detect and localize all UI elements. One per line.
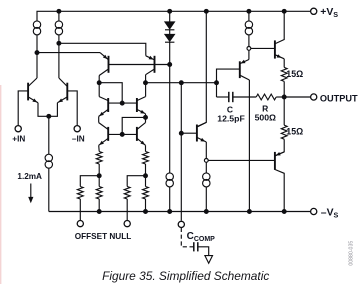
wire CCOMP dashed lead: [181, 228, 193, 247]
terminal OUTPUT: [311, 94, 317, 100]
svg-text:12.5pF: 12.5pF: [217, 113, 245, 123]
node rail-Q11 collector: [282, 210, 286, 214]
wire Q12 collector to +VS: [275, 11, 284, 43]
wire Q7/Q8 base rail: [108, 133, 137, 135]
wire output node to OUTPUT terminal: [284, 96, 310, 98]
wire Q5/Q6 base rail: [108, 102, 137, 104]
wire node J to Q12 base: [251, 47, 275, 49]
wire I2 to Q2 collector: [58, 35, 60, 78]
node Q: offset network right node: [144, 174, 148, 178]
wire node J to Q10 emitter: [248, 50, 250, 59]
wire R2 to node Q: [145, 164, 147, 187]
transistor Q1 (input NPN, +IN side): [18, 78, 38, 126]
node rail-I4: [247, 9, 251, 13]
current source I3 (1.2mA tail): [45, 154, 52, 168]
wire node B to Q4 emitter corner: [59, 43, 146, 56]
terminal -IN: [74, 126, 80, 132]
terminal CCOMP: [178, 221, 184, 227]
wire second-stage bus (node D horizontal): [146, 82, 217, 84]
wire C1 to R5: [233, 96, 256, 98]
wire I1 to Q1 collector: [36, 35, 38, 78]
svg-text:–IN: –IN: [72, 135, 85, 144]
terminal +IN: [15, 126, 21, 132]
svg-text:OFFSET NULL: OFFSET NULL: [75, 232, 131, 241]
wire CCOMP column (node D down to CCOMP terminal): [180, 83, 182, 221]
svg-text:+IN: +IN: [12, 135, 25, 144]
current source I4 (Q10 emitter bias): [245, 21, 252, 35]
arrow 1.2mA current direction: [28, 184, 33, 204]
wire Q6 emitter to node M: [145, 114, 147, 118]
transistor Q2 (input NPN, -IN side): [57, 78, 77, 126]
node D-left: Q3 collector / Q5 collector / bias branch: [97, 81, 101, 85]
wire I2 top feed: [58, 11, 60, 21]
node rail-I5: [168, 210, 172, 214]
transistor Q5 (second stage NPN, left upper): [99, 97, 109, 117]
node M: Q6 emitter / Q8 collector junction: [144, 116, 148, 120]
node L: base rail junction: [120, 101, 124, 105]
svg-text:1.2mA: 1.2mA: [17, 172, 42, 181]
resistor R2B (right node to -VS): [143, 187, 149, 200]
wire node G to current source I6: [205, 162, 207, 173]
current source I1 (left input collector load): [33, 21, 40, 35]
wire R2A to OFFSET NULL terminal (crosses rail): [126, 199, 128, 221]
node rail-R1B: [97, 210, 101, 214]
wire C2 to external ground arrow: [198, 247, 209, 256]
wire R5 to output node: [276, 96, 284, 98]
wire +VS top supply rail: [37, 11, 311, 21]
wire D2 to bias node and current source I5: [169, 42, 171, 173]
node C: Q3/Q4 base bias node on diode column: [168, 63, 172, 67]
capacitor C2 CCOMP left plate: [193, 242, 195, 251]
node rail-R2B: [144, 210, 148, 214]
transistor Q3 (PNP, driven from node A): [99, 53, 108, 76]
node rail-Q9 collector: [204, 9, 208, 13]
wire Q3/Q4 base line to node C: [109, 64, 170, 66]
wire node P to offset-null branch: [80, 176, 99, 187]
resistor R1A (offset null branch): [77, 187, 83, 200]
node K: tail junction: [47, 114, 51, 118]
svg-text:Figure 35. Simplified Schemati: Figure 35. Simplified Schematic: [102, 269, 269, 283]
wire R1A to OFFSET NULL terminal (crosses rail): [79, 199, 81, 221]
node N: lower base rail junction: [120, 133, 124, 137]
scan artifact line (left page edge): [0, 85, 2, 284]
terminal +VS: [311, 8, 317, 14]
wire I5 to -VS rail: [169, 187, 171, 212]
svg-text:15Ω: 15Ω: [286, 127, 303, 137]
wire Q5 emitter to Q7 collector: [98, 116, 100, 122]
node G: emitter tap circle of Q9: [204, 159, 208, 163]
transistor Q8 (second stage NPN, right lower): [137, 123, 146, 146]
node rail-Q12 collector: [282, 9, 286, 13]
node rail-Q10 collector: [248, 210, 252, 214]
ground arrow (external connection): [205, 256, 213, 264]
wire Q8 emitter to R2: [145, 145, 147, 151]
wire R1 to node P: [98, 164, 100, 187]
current source I2 (right input collector load): [55, 21, 62, 35]
wire node A to Q3 emitter: [37, 52, 100, 54]
transistor Q6 (second stage NPN, right upper): [137, 97, 146, 114]
diode D2: [165, 34, 174, 42]
svg-text:500Ω: 500Ω: [255, 112, 276, 122]
transistor Q10 (PNP emitter follower driver): [240, 60, 250, 81]
svg-text:CCOMP: CCOMP: [187, 231, 216, 243]
svg-text:15Ω: 15Ω: [286, 69, 303, 79]
wire output node to R4: [283, 97, 285, 125]
wire Q9 emitter tap column: [205, 142, 207, 159]
wire Q9 base: [181, 132, 196, 134]
capacitor C1 12.5pF left plate: [228, 92, 230, 102]
node D: Q4 collector on bus: [144, 81, 148, 85]
node rail-I2: [57, 9, 61, 13]
node H: bus to compensation column: [215, 81, 219, 85]
wire Q8 collector to node M column: [145, 117, 147, 122]
wire tail current source column: [48, 116, 50, 154]
svg-text:00880-035: 00880-035: [349, 241, 355, 266]
wire diode string top: [169, 11, 171, 22]
svg-text:–VS: –VS: [321, 208, 339, 220]
wire R1B to rail: [98, 199, 100, 212]
wire Q12 emitter to R3: [283, 59, 285, 68]
wire Q1/Q2 emitters to tail node: [38, 103, 57, 117]
wire I6 to -VS rail: [205, 187, 207, 212]
terminal OFFSET NULL left: [77, 221, 83, 227]
node output junction: [282, 95, 286, 99]
wire I4 to node J: [248, 35, 250, 47]
node J: emitter tap circle of Q10: [247, 47, 251, 51]
capacitor C2 CCOMP right plate: [197, 242, 199, 251]
node A: junction I1/Q1 collector to Q3 emitter: [35, 51, 39, 55]
current source I6 (Q9 emitter bias): [203, 173, 210, 187]
terminal OFFSET NULL right: [124, 221, 130, 227]
wire node G to Q11 base: [208, 159, 274, 161]
diode D1: [165, 22, 174, 30]
wire compensation node column C to Q10 base: [217, 69, 240, 97]
terminal -VS: [311, 208, 317, 214]
node E: CCOMP column junction on bus: [179, 81, 183, 85]
wire R2B to rail: [145, 199, 147, 212]
capacitor C1 12.5pF right plate: [232, 92, 234, 102]
wire comp node to C1: [217, 96, 229, 98]
wire Q7 emitter to R1: [98, 145, 101, 151]
wire Q11 collector to -VS rail: [275, 170, 284, 212]
wire +VS to current source I4: [248, 11, 250, 21]
resistor R5 500 ohm: [256, 94, 276, 100]
wire node M to Q7/Q8 base rail: [122, 117, 145, 134]
wire R4 to Q11 emitter: [275, 139, 284, 156]
svg-text:+VS: +VS: [320, 7, 338, 19]
node rail-I6: [204, 210, 208, 214]
transistor Q9 (NPN emitter follower driver): [197, 122, 206, 142]
node P: offset network left node: [97, 174, 101, 178]
transistor Q12 (output NPN): [275, 40, 284, 58]
wire Q4 collector to bus: [145, 75, 147, 97]
node F: CCOMP column junction to Q9 base: [179, 131, 183, 135]
transistor Q7 (second stage NPN, left lower): [99, 123, 109, 146]
wire I3 to -VS rail corner: [48, 168, 50, 211]
resistor R3 15 ohm (output NPN emitter): [281, 67, 287, 81]
wire D1 to D2: [169, 30, 171, 35]
transistor Q11 (output PNP): [275, 152, 284, 170]
resistor R2A (offset null branch): [124, 187, 130, 200]
resistor R1B (left node to -VS): [96, 187, 102, 200]
svg-text:OUTPUT: OUTPUT: [320, 94, 358, 104]
resistor R1 (Q7 emitter degeneration, upper): [96, 152, 102, 165]
wire node Q to offset-null branch: [127, 176, 145, 187]
wire node D-left branch to Q5/Q6 base rail: [99, 83, 122, 103]
node B: junction I2/Q2 collector to Q4 emitter: [57, 41, 61, 45]
node rail-diodes: [168, 9, 172, 13]
transistor Q4 (PNP, driven from node B): [146, 56, 155, 75]
resistor R4 15 ohm (output PNP emitter): [281, 125, 287, 139]
wire Q10 collector to -VS rail: [248, 80, 250, 212]
current source I5 (bias leg of diode column): [166, 173, 173, 187]
wire -VS bottom supply rail: [49, 211, 311, 213]
wire Q3 collector to node D-left: [98, 76, 100, 97]
wire R3 to output node: [283, 81, 285, 97]
wire Q9 collector to +VS: [198, 11, 207, 126]
resistor R2 (Q8 emitter degeneration, upper): [143, 152, 149, 165]
